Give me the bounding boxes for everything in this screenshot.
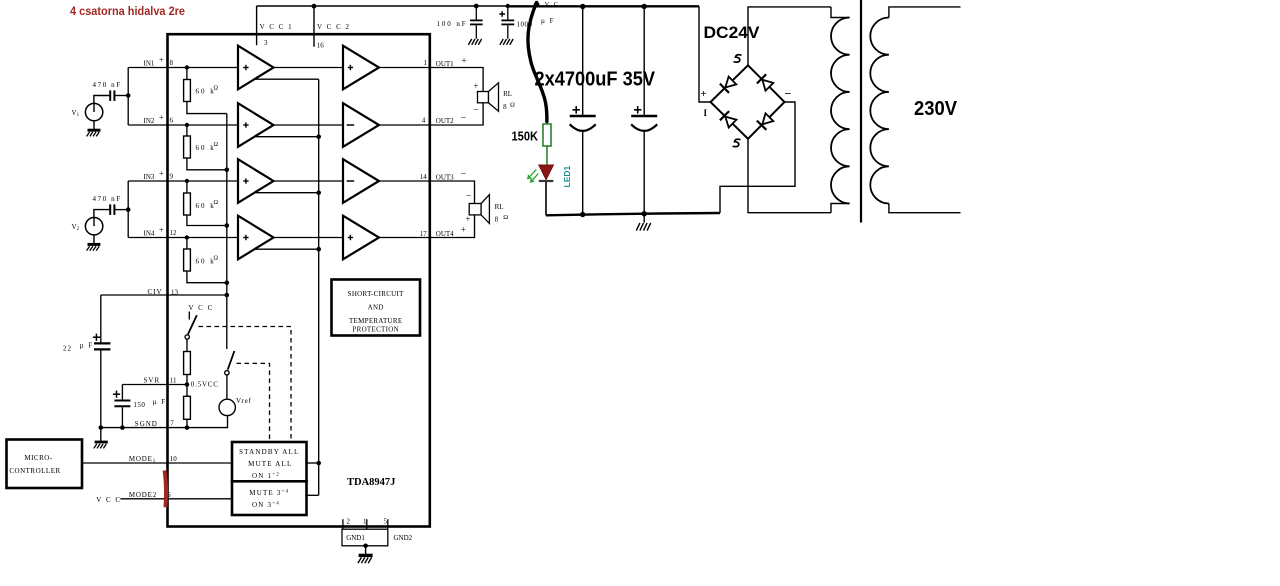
svg-text:150: 150 [133,401,145,409]
source V1 circle [85,103,102,120]
ground under rail [636,223,650,231]
resistor R2 60k [186,125,188,136]
svg-text:2: 2 [347,518,351,526]
svg-text:+: + [462,56,467,66]
junction dot 1000uF on rail [506,4,510,8]
op-amp B3 stage2 inverting [343,159,379,203]
wire bridge minus to ground rail [720,102,795,213]
wire A3 tap [255,192,319,194]
source V2 inner tick [93,218,95,227]
ground earth GND1 [358,555,373,563]
svg-text:Ω: Ω [214,256,219,262]
svg-text:Ω: Ω [214,142,219,148]
wire 150uF down to SGND [121,407,123,427]
wire A4 tap [255,248,319,250]
svg-text:1: 1 [424,59,428,67]
svg-text:8: 8 [170,59,174,67]
capacitor C7 plates [570,115,596,117]
svg-text:8: 8 [503,103,507,111]
svg-text:IN1: IN1 [144,59,155,67]
red annotation stroke [165,471,167,508]
dashed control line S1 [199,327,292,442]
resistor R3 60k [186,181,188,193]
svg-text:CONTROLLER: CONTROLLER [9,467,60,475]
wire VCC top rail [257,5,507,7]
ground under V2 [87,244,101,250]
svg-text:MICRO-: MICRO- [24,454,52,462]
diode D4 bottom-right [757,113,773,130]
op-amp A4 stage1 [238,216,274,260]
wire CIV down to 22uF [100,295,102,342]
bridge AC squiggle top [734,55,742,62]
junction dots C8 [642,4,647,9]
capacitor C5 100nF leads [475,6,477,20]
wire IN4 [128,237,238,239]
box short-circuit protection [332,280,421,336]
svg-text:150K: 150K [512,130,539,144]
junction dot GND box [363,544,368,549]
freehand wire to 150K [528,3,547,122]
diode D3 bottom-left [720,111,737,127]
junction dot 0.5VCC node [185,382,190,387]
svg-text:+: + [159,169,164,178]
wire R5 to node [186,375,188,397]
wire box2 to feedback rail [307,494,319,496]
wire feedback rail vertical [318,79,320,495]
wire OUT3 to speaker RL2 [429,181,475,204]
wire A4 to B4 [274,237,344,239]
svg-text:MODE1: MODE1 [129,455,156,464]
svg-text:MODE2: MODE2 [129,491,157,499]
source V1 lead from cap [94,96,109,104]
switch S2 [228,351,235,370]
wire bridge bottom to transformer [748,139,831,213]
wire box1 to feedback rail [307,462,319,464]
svg-text:+: + [701,88,707,100]
svg-text:LED1: LED1 [562,166,572,188]
wire speaker RL2 to OUT4 [429,215,475,238]
source V2 lead from cap [94,210,109,218]
wire C2 to input node [115,209,128,211]
wire IN2 [128,124,238,126]
svg-text:11: 11 [170,376,177,384]
box GND1 [342,529,388,546]
junction dot input node 2 [126,207,131,212]
capacitor C7 4700uF leads [582,6,584,115]
plus sign C7 [573,106,580,113]
svg-text:10: 10 [170,455,178,463]
svg-text:12: 12 [170,229,178,237]
wire IN1 [128,67,238,69]
svg-text:1: 1 [363,518,367,526]
svg-text:4: 4 [422,116,426,124]
svg-text:230V: 230V [914,98,958,120]
wire transformer top to bridge [748,7,831,65]
svg-text:−: − [785,87,792,101]
svg-text:SHORT-CIRCUIT: SHORT-CIRCUIT [348,290,405,298]
svg-text:RL: RL [503,90,512,98]
box standby-mute 1 [232,442,307,481]
svg-text:PROTECTION: PROTECTION [352,326,399,334]
svg-text:MUTE ALL: MUTE ALL [248,460,292,468]
wire IN3 [128,180,238,182]
wire MODE1 pin 10 [82,462,232,464]
wire A1 tap [255,78,319,80]
junction dot R2 node [225,168,230,173]
svg-text:9: 9 [170,172,174,180]
wire A2 to B2 [274,124,344,126]
svg-text:22: 22 [63,344,72,352]
plus sign 22uF [93,334,100,341]
LED emission arrows [528,170,538,182]
wire R7 to LED [546,146,548,165]
svg-text:GND1: GND1 [346,534,365,542]
svg-text:0.5VCC: 0.5VCC [191,381,219,389]
svg-text:CIV: CIV [148,288,163,296]
wire MODE2 pin 5 [120,498,232,500]
wire A2 tap [255,136,319,138]
svg-text:6: 6 [170,117,174,125]
svg-text:GND2: GND2 [394,534,413,542]
junction dot R3 node [225,223,230,228]
capacitor C8 4700uF leads [643,6,645,115]
speaker RL1 [478,92,489,103]
svg-text:Ω: Ω [503,214,508,221]
wire S1 to R5 [186,339,188,351]
svg-text:Ω: Ω [214,200,219,206]
wire ground stub below rail [643,214,645,223]
svg-text:V C C: V C C [96,496,121,504]
wire LED to bottom rail [545,182,547,215]
wire SGND pin 7 [101,416,228,428]
svg-text:+: + [465,214,470,224]
capacitor C2 470nF plates [109,204,111,215]
svg-text:470 nF: 470 nF [93,195,122,203]
op-amp B4 stage2 [343,216,379,260]
wire OUT4 [379,237,429,239]
wire CIV pin 13 [101,294,227,296]
source V1 bottom lead [93,121,95,129]
svg-text:5: 5 [384,518,388,526]
svg-text:OUT1: OUT1 [436,60,454,68]
source V2 circle [85,218,102,235]
junction dot IN3 [185,179,189,183]
svg-text:3: 3 [264,39,268,47]
wire SVR down to 150uF [121,385,123,400]
svg-text:IN2: IN2 [144,117,155,125]
capacitor C6 1000uF leads [507,6,509,20]
junction dot 150uF SGND [120,425,125,430]
svg-text:2x4700uF 35V: 2x4700uF 35V [535,67,656,90]
svg-text:13: 13 [171,288,179,296]
svg-text:+: + [473,81,478,91]
diode D2 top-right [757,74,773,90]
svg-text:Vref: Vref [236,397,252,405]
wire input vertical IN1-IN2 [127,68,129,126]
capacitor C1 470nF plates [109,90,111,101]
wire S2 to Vref [226,375,228,399]
pin 3 VCC1 stub [256,6,258,45]
ground under 100nF [468,39,481,45]
capacitor C3 22uF plates [94,342,110,344]
svg-text:−: − [466,191,472,202]
plus sign C8 [634,106,641,113]
resistor R7 150K green [543,124,551,146]
svg-text:16: 16 [317,42,325,50]
junction dot SGND left [99,425,104,430]
svg-text:OUT2: OUT2 [436,117,454,125]
IC U1 TDA8947J outline [168,34,430,526]
junction dot R6 SGND [185,425,190,430]
svg-text:µ F: µ F [541,17,555,25]
wire A3 to B3 [274,180,344,182]
ground under 1000uF [500,39,513,45]
svg-text:14: 14 [420,173,428,181]
svg-text:I: I [704,108,708,118]
capacitor C8 plates [631,115,657,117]
LED D5 LED1 [539,165,554,180]
svg-text:470 nF: 470 nF [93,81,122,89]
svg-text:DC24V: DC24V [704,23,761,42]
resistor R5 divider [184,352,191,375]
wire input vertical IN3-IN4 [127,181,129,238]
resistor R1 60k [186,68,188,80]
capacitor C4 150uF plates [114,400,130,402]
svg-text:+: + [159,56,164,65]
op-amp A2 stage1 [238,103,274,147]
svg-text:V C C 1: V C C 1 [260,23,294,31]
diode D1 top-left [720,77,736,93]
op-amp A1 stage1 [238,46,274,90]
resistor R4 60k [186,238,188,250]
source V1 inner tick [93,104,95,113]
svg-text:−: − [461,169,467,180]
transformer primary winding [831,7,850,18]
svg-text:+: + [159,226,164,235]
wire C1 to input node [115,95,128,97]
svg-text:4 csatorna hidalva 2re: 4 csatorna hidalva 2re [70,6,185,18]
svg-text:8: 8 [495,215,499,223]
transformer secondary winding [889,7,961,18]
svg-text:STANDBY ALL: STANDBY ALL [239,448,299,456]
capacitor C6 1000uF plates [501,19,514,21]
svg-text:TEMPERATURE: TEMPERATURE [349,317,402,325]
wire speaker RL1 to OUT2 [429,103,483,125]
plus sign 1000uF [499,11,505,17]
junction dot IN2 [185,123,189,127]
op-amp A3 stage1 [238,159,274,203]
box microcontroller [7,440,83,489]
bridge rectifier diamond [711,65,785,139]
wire VCC top rail thick part [507,5,700,7]
wire OUT2 [379,124,429,126]
junction dot input node 1 [126,93,131,98]
svg-text:SGND: SGND [135,420,158,428]
op-amp B2 stage2 inverting [343,103,379,147]
plus sign 150uF [113,391,120,398]
dashed control line S2 [237,363,270,441]
resistor R6 divider [184,396,191,419]
op-amp B1 stage2 [343,46,379,90]
svg-text:RL: RL [495,203,504,211]
wire GND to earth [365,546,367,554]
junction dot IN1 [185,65,189,69]
wire SVR pin 11 [122,384,187,386]
source V2 bottom lead [93,235,95,243]
svg-text:7: 7 [170,420,174,428]
svg-text:V C: V C [545,1,560,8]
svg-text:SVR: SVR [144,376,161,384]
svg-text:+: + [461,224,466,234]
wire OUT1 to speaker RL1 [429,68,483,92]
wire OUT3 [379,180,429,182]
svg-text:+: + [159,113,164,122]
junction dots C7 [580,4,585,9]
junction dot R4 node [225,280,230,285]
svg-text:TDA8947J: TDA8947J [347,477,395,488]
box standby-mute 2 [232,481,307,515]
svg-text:−: − [461,113,467,124]
svg-text:µ F: µ F [153,398,167,406]
wire A1 to B1 [274,67,344,69]
capacitor C5 100nF plates [470,19,483,21]
wire OUT1 [379,67,429,69]
svg-text:V C C 2: V C C 2 [317,23,351,31]
svg-text:Ω: Ω [510,102,515,109]
switch S1 [188,312,190,320]
svg-text:100 nF: 100 nF [437,20,468,28]
wire R6 to SGND [186,419,188,427]
svg-text:µ F: µ F [80,342,94,350]
pin stubs GND 2 1 5 [342,519,344,529]
ground under V1 [87,130,101,136]
svg-text:AND: AND [368,304,384,312]
svg-text:IN4: IN4 [144,229,155,237]
junction dot 100nF on rail [474,4,479,9]
wire bottom ground rail [546,213,720,215]
wire 22uF down to SGND [100,350,102,441]
bridge AC squiggle bottom [733,139,741,146]
pin 16 VCC2 stub [313,6,315,46]
svg-text:IN3: IN3 [144,173,155,181]
svg-text:V C C: V C C [189,304,214,312]
wire rail down to bridge plus [699,6,711,102]
source Vref circle [219,399,235,415]
junction dot VCC2 on rail [312,4,317,9]
svg-text:−: − [473,105,479,116]
speaker RL2 [469,204,481,215]
svg-text:Ω: Ω [214,86,219,92]
transformer core [860,0,862,223]
svg-text:OUT3: OUT3 [436,173,454,181]
wire common 60k rail [226,114,228,349]
junction dot CIV rail [225,293,230,298]
junction dot IN4 [185,235,189,239]
ground under 22uF line [94,442,108,448]
svg-text:17: 17 [420,230,428,238]
